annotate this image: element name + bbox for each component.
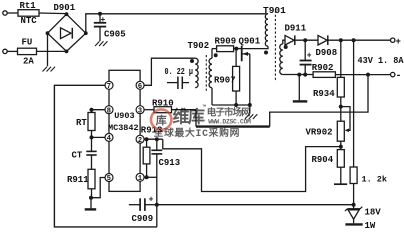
node C905 junction — [98, 12, 102, 16]
wire secondary top to D911 — [283, 40, 285, 44]
svg-text:2: 2 — [138, 137, 142, 145]
bridge rectifier D901 — [48, 14, 86, 51]
svg-text:MC3842: MC3842 — [108, 123, 139, 133]
node base Q901 — [234, 47, 238, 51]
capacitor output filter — [304, 40, 306, 60]
svg-text:R902: R902 — [312, 63, 334, 73]
svg-text:7: 7 — [107, 83, 111, 91]
watermark stamp circle — [151, 104, 251, 139]
node C909 plus — [155, 203, 159, 207]
svg-text:1W: 1W — [365, 221, 376, 231]
pin 3 — [136, 106, 144, 114]
wire primary bottom to collector — [242, 46, 268, 48]
wire pin2 feedback — [144, 138, 163, 140]
transformer T901 primary winding — [265, 14, 268, 46]
wire bottom of switch cell — [212, 104, 250, 106]
wire D911 to node — [295, 39, 318, 41]
svg-text:T902: T902 — [188, 41, 210, 51]
potentiometer VR902 — [337, 121, 344, 141]
svg-text:Rt1: Rt1 — [20, 1, 37, 11]
resistor R910 — [154, 107, 172, 113]
zener diode 18V 1W — [353, 205, 355, 209]
wire pin5 to ground node — [91, 178, 105, 198]
svg-text:C913: C913 — [159, 158, 181, 168]
wire pin3 to R910 — [144, 109, 154, 111]
svg-text:5: 5 — [107, 175, 111, 183]
wire pin1 — [144, 176, 157, 178]
svg-text:WWW.DZSC.COM: WWW.DZSC.COM — [208, 119, 251, 126]
pin 2 — [136, 135, 144, 143]
wire vertical net x157 — [156, 154, 158, 227]
svg-text:+: + — [149, 196, 154, 205]
svg-text:维库: 维库 — [173, 107, 205, 129]
wire bridge positive up to DC rail — [86, 14, 268, 33]
svg-text:R934: R934 — [313, 89, 335, 99]
transformer T902 core — [205, 55, 207, 91]
svg-text:2A: 2A — [23, 57, 34, 67]
ground (slash style) at emitter — [245, 114, 257, 119]
wire pin7 Vcc rail left and bottom — [54, 85, 157, 227]
resistor R907 — [233, 66, 240, 91]
transistor Q901 — [241, 46, 243, 62]
pin 5 — [105, 174, 113, 182]
terminal AC input top — [3, 11, 7, 15]
svg-text:CT: CT — [72, 151, 83, 161]
wire to ground — [249, 105, 251, 114]
resistor R913 — [143, 147, 150, 164]
op-amp U903 MC3842 IC box — [109, 70, 140, 191]
transformer T902 feedback winding (right) — [211, 49, 213, 59]
T901 primary phase dot — [264, 51, 268, 55]
svg-text:R907: R907 — [214, 76, 236, 86]
fuse FU 2A — [18, 48, 37, 54]
diode inside bridge — [61, 28, 72, 39]
svg-text:43V 1. 8A: 43V 1. 8A — [358, 56, 404, 66]
wire C909 to zener node — [157, 204, 354, 206]
terminal AC input bottom — [3, 49, 7, 53]
svg-text:0. 22 μ: 0. 22 μ — [165, 67, 194, 77]
node pin4/RT/CT — [90, 135, 94, 139]
svg-text:D908: D908 — [316, 48, 338, 58]
node pin8/RT — [90, 108, 94, 112]
svg-text:+: + — [307, 52, 312, 61]
transformer T901 core — [274, 11, 276, 83]
T902 right phase dot — [214, 53, 218, 57]
svg-text:+: + — [101, 16, 106, 25]
terminal output minus — [391, 72, 395, 76]
svg-text:1: 1 — [138, 175, 142, 183]
capacitor C909 — [129, 204, 140, 206]
wire — [39, 12, 67, 15]
svg-text:FU: FU — [22, 38, 33, 48]
wire pin4 — [92, 136, 106, 138]
svg-text:1. 2k: 1. 2k — [362, 175, 388, 185]
ground (slash style) at bridge — [43, 67, 56, 72]
pin 7 — [105, 81, 113, 89]
svg-text:C909: C909 — [132, 214, 154, 224]
ground (bar style) below R911 — [90, 198, 92, 209]
svg-text:D911: D911 — [285, 24, 307, 34]
wire — [37, 50, 67, 52]
svg-text:U903: U903 — [114, 111, 134, 121]
svg-text:4: 4 — [107, 135, 111, 143]
T901 secondary phase dot — [284, 45, 288, 49]
resistor R909 — [217, 46, 234, 52]
node zener top — [352, 203, 356, 207]
node R911 bottom — [89, 196, 93, 200]
terminal output plus — [391, 38, 395, 42]
resistor 1.2k — [353, 40, 355, 167]
pin 1 — [136, 173, 144, 181]
diode D908 — [318, 35, 327, 45]
pin 4 — [105, 133, 113, 141]
wire — [7, 12, 18, 14]
capacitor 0.22u — [167, 82, 178, 84]
svg-text:RT: RT — [76, 118, 87, 128]
resistor R902 — [313, 72, 335, 78]
diode D911 — [285, 35, 294, 45]
resistor R934 — [340, 40, 342, 77]
svg-text:3: 3 — [138, 107, 142, 115]
capacitor C913 — [156, 139, 158, 150]
ground (slash style) at C905 — [95, 41, 108, 46]
wire current sense path — [195, 110, 197, 127]
svg-text:-: - — [396, 71, 402, 82]
svg-text:+: + — [396, 37, 401, 47]
svg-text:R910: R910 — [152, 99, 174, 109]
wire secondary bottom rail — [283, 74, 313, 76]
capacitor C905 — [99, 14, 101, 23]
svg-text:VR902: VR902 — [306, 128, 333, 138]
capacitor CT — [91, 137, 93, 151]
transformer T901 secondary winding — [280, 44, 283, 75]
resistor Rt1 (NTC) — [18, 10, 39, 17]
T902 left phase dot — [190, 59, 194, 63]
svg-text:全球最大IC采购网: 全球最大IC采购网 — [153, 126, 241, 139]
svg-text:库: 库 — [156, 113, 167, 128]
wire pin8 to RT — [92, 110, 106, 113]
svg-text:6: 6 — [138, 83, 142, 91]
svg-text:C905: C905 — [104, 30, 126, 40]
svg-text:R904: R904 — [312, 155, 334, 165]
svg-text:NTC: NTC — [21, 16, 38, 26]
svg-text:Q901: Q901 — [239, 36, 261, 46]
svg-text:D901: D901 — [54, 3, 76, 13]
svg-text:T901: T901 — [263, 5, 286, 16]
pin 8 — [105, 106, 113, 114]
svg-text:电子市场网: 电子市场网 — [207, 107, 250, 119]
pin 6 — [136, 81, 144, 89]
resistor RT — [88, 113, 95, 131]
transformer T902 drive winding (left) — [195, 58, 198, 87]
wire bridge negative down — [47, 33, 49, 66]
resistor R911 — [88, 169, 95, 189]
svg-text:R909: R909 — [215, 36, 237, 46]
wire pin6 to T902 — [144, 58, 195, 85]
svg-text:8: 8 — [107, 107, 111, 115]
svg-text:18V: 18V — [365, 208, 382, 218]
wire — [7, 50, 17, 52]
resistor R904 — [337, 150, 344, 168]
VR902 wiper — [341, 107, 350, 131]
wire D908 to plus terminal — [328, 39, 391, 41]
ground (bar style) secondary — [298, 75, 300, 101]
svg-text:R911: R911 — [67, 175, 89, 185]
